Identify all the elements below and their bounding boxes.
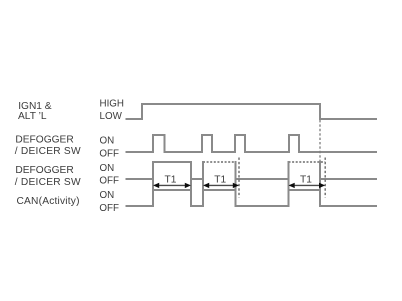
svg-text:OFF: OFF	[99, 175, 119, 186]
shared vertical edges (output + CAN)	[153, 161, 320, 207]
svg-text:DEFOGGER: DEFOGGER	[15, 165, 73, 176]
svg-text:LOW: LOW	[100, 111, 123, 122]
output pulse A top (solid)	[153, 161, 191, 163]
waveform DEFOGGER/DEICER switch pulses	[126, 135, 378, 152]
svg-text:ON: ON	[100, 190, 115, 201]
svg-text:OFF: OFF	[99, 203, 119, 214]
svg-text:/ DEICER SW: / DEICER SW	[15, 146, 81, 157]
T1 arrow 1	[153, 175, 191, 188]
svg-text:/ DEICER SW: / DEICER SW	[15, 177, 81, 188]
svg-text:T1: T1	[165, 175, 177, 186]
waveform IGN1 & ALT'L	[126, 104, 378, 119]
output pulse B timer fall (dashed)	[238, 158, 240, 198]
CAN(Activity) ON tops	[153, 189, 320, 191]
T1 arrow 3	[289, 175, 326, 188]
output pulse B top (dashed)	[203, 161, 236, 163]
svg-text:DEFOGGER: DEFOGGER	[15, 134, 73, 145]
svg-text:T1: T1	[300, 175, 312, 186]
output pulse C timer fall (dashed)	[324, 158, 326, 198]
svg-text:HIGH: HIGH	[100, 99, 125, 110]
svg-text:ON: ON	[100, 135, 115, 146]
CAN(Activity) OFF segments	[126, 205, 378, 207]
svg-text:T1: T1	[214, 175, 226, 186]
T1 arrow 2	[203, 175, 239, 188]
svg-text:ALT ’L: ALT ’L	[18, 111, 47, 122]
output pulse C top (dashed)	[289, 161, 326, 163]
svg-text:OFF: OFF	[99, 148, 119, 159]
output OFF segments	[126, 178, 378, 180]
global dashed vertical at IGN off	[319, 120, 321, 161]
svg-text:CAN(Activity): CAN(Activity)	[17, 196, 80, 207]
svg-text:ON: ON	[100, 163, 115, 174]
